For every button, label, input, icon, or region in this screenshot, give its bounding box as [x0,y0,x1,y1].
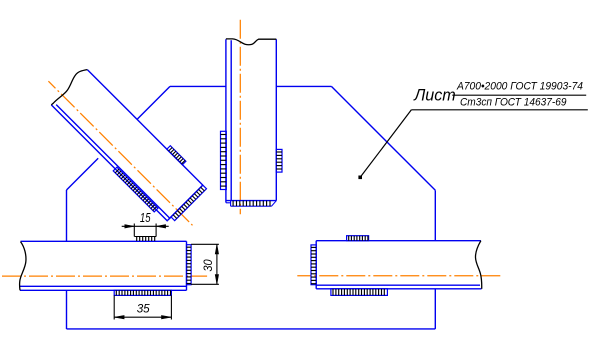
right chord centerline [297,275,501,277]
weld seam on diagonal brace end cut [171,185,206,220]
right chord break line [475,241,481,289]
weld seam below left chord (35 mm) [114,290,171,295]
callout denominator Ст3сп ГОСТ 14637-69 [460,97,567,109]
dimension 30 [191,244,219,284]
right chord bottom inner edge [316,284,480,286]
weld seam above left chord (15 mm) [134,237,156,242]
left chord centerline [2,275,207,277]
svg-text:Лист: Лист [413,86,455,104]
gusset plate left edge lower part [66,290,68,329]
vertical brace top break line [226,39,276,45]
left chord top edge [21,240,187,242]
right chord left end edge [315,241,317,289]
weld seam at left chord right end [187,245,192,285]
left chord right end edge [186,241,188,290]
gusset plate right edge upper part [434,190,436,240]
label Лист [413,86,455,104]
gusset plate top-right bevel edge [331,86,435,190]
diagonal brace lower-left inner edge [56,105,170,219]
right chord bottom outer edge [316,288,481,290]
weld seam on diagonal brace lower edge [113,167,158,212]
weld seam on diagonal brace upper edge [167,146,186,165]
svg-text:Ст3сп ГОСТ 14637-69: Ст3сп ГОСТ 14637-69 [460,97,567,109]
left chord bottom outer edge [20,289,187,291]
vertical brace right edge [275,39,277,200]
weld seam left of vertical brace [221,131,227,189]
vertical brace centerline [239,20,241,214]
gusset plate left edge upper bevel [67,158,99,190]
svg-text:35: 35 [137,302,150,316]
right chord top edge [316,240,481,242]
diagonal brace lower-left outer edge [51,105,167,221]
gusset plate left edge upper part [66,190,68,241]
vertical brace left inner edge [230,40,232,200]
diagonal brace centerline [48,81,192,225]
left chord bottom inner edge [20,285,187,287]
diagonal brace upper-right edge [87,70,203,186]
weld seam right of vertical brace [276,149,282,172]
weld seam below right chord [331,289,388,296]
diagonal brace end cut edge [168,185,203,220]
fraction bar [452,94,586,96]
gusset plate top-left bevel edge [137,86,170,119]
weld seam below vertical brace [226,201,276,207]
vertical brace bottom edge [226,200,276,202]
svg-text:15: 15 [140,210,151,225]
callout numerator А700х2000 ГОСТ 19903-74 [456,81,583,93]
weld seam at right chord left end [311,245,316,285]
gusset plate top edge right segment [276,85,331,87]
diagonal brace break line [51,70,87,105]
left chord break line [20,242,26,291]
gusset plate top edge left segment [170,85,226,87]
svg-text:А700•2000 ГОСТ 19903-74: А700•2000 ГОСТ 19903-74 [456,81,583,93]
weld seam on right chord top [347,236,369,241]
gusset plate right edge lower part [434,289,436,329]
dimension 35 [114,295,171,319]
gusset plate bottom edge [67,328,436,330]
leader line with dot [358,110,587,179]
svg-text:30: 30 [201,259,215,271]
dimension 15 [122,210,169,237]
vertical brace left outer edge [225,39,227,202]
